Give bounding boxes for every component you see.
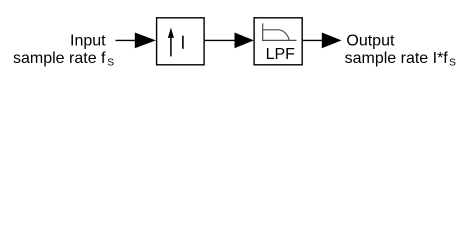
svg-text:S: S — [107, 58, 114, 69]
svg-text:Output: Output — [346, 33, 395, 50]
wire: input signal into upsampler — [116, 39, 137, 41]
svg-text:S: S — [449, 57, 456, 68]
upsampler factor label I — [182, 36, 184, 49]
LPF icon horizontal axis — [262, 39, 296, 41]
wire: LPF to output — [303, 39, 324, 41]
svg-text:LPF: LPF — [266, 46, 296, 63]
upsampler block U1 box — [157, 18, 205, 65]
arrowhead: output wire — [322, 33, 342, 49]
wire: upsampler to LPF — [205, 39, 237, 41]
upsampler up-arrow head — [168, 28, 174, 38]
LPF icon vertical axis — [262, 23, 264, 41]
svg-text:sample rate I*f: sample rate I*f — [345, 50, 449, 67]
upsampler up-arrow stem — [170, 37, 172, 57]
arrowhead: wire into LPF — [235, 33, 254, 49]
svg-text:Input: Input — [70, 33, 106, 50]
LPF block box — [254, 18, 302, 65]
svg-text:sample rate f: sample rate f — [13, 50, 106, 67]
LPF icon response curve — [263, 30, 289, 40]
arrowhead: input wire into upsampler U1 — [135, 33, 156, 49]
